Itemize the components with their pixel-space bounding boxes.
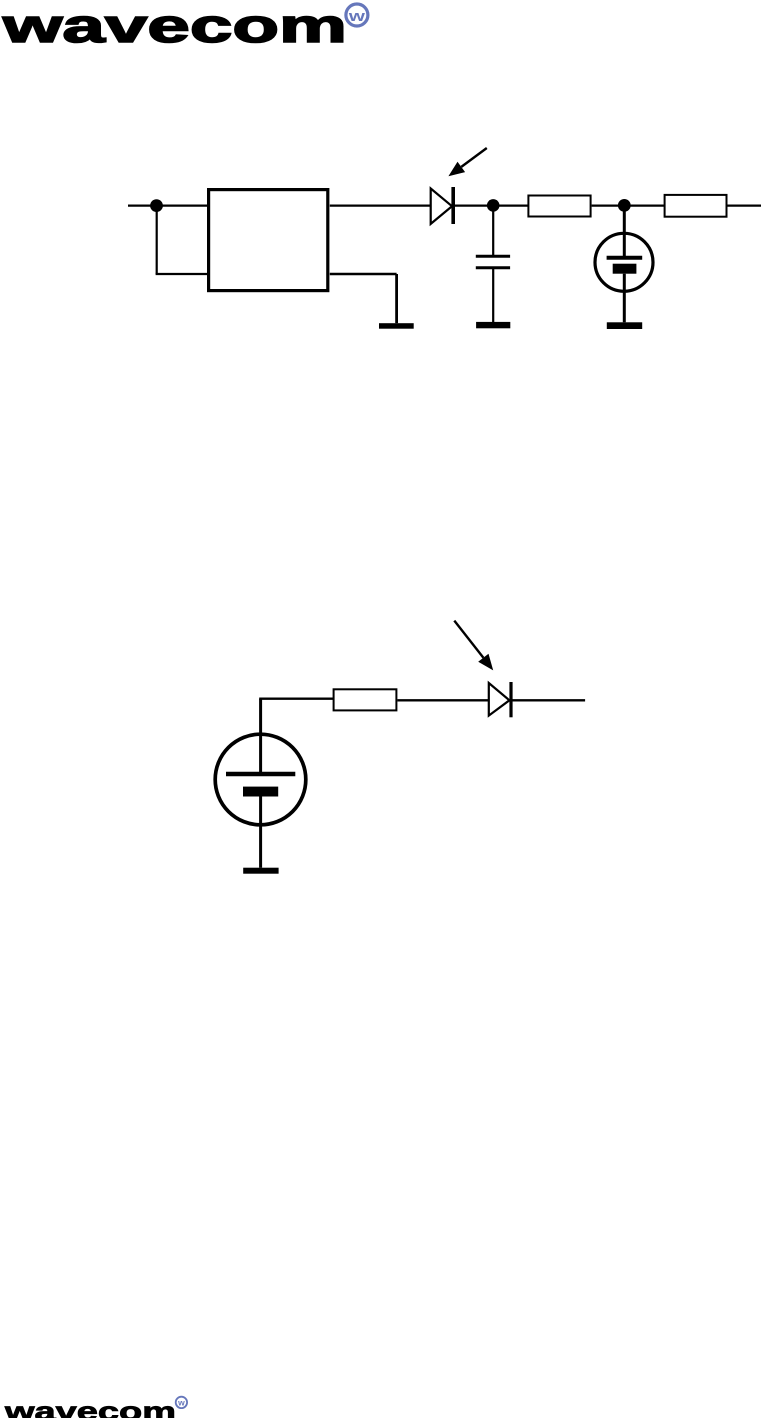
node capacitor junction bbox=[487, 199, 500, 212]
annotation arrow at D2 bbox=[454, 621, 493, 671]
wire R1 to node bbox=[592, 205, 625, 207]
logo footer badge bbox=[176, 1397, 187, 1408]
wire diode to node bbox=[455, 205, 493, 207]
battery BT2 circle bbox=[215, 734, 306, 825]
resistor R1 bbox=[528, 196, 590, 217]
resistor R3 bbox=[334, 689, 397, 710]
wire feedback vertical bbox=[156, 206, 158, 274]
wire regulator ground vertical bbox=[395, 274, 398, 323]
resistor R2 bbox=[665, 195, 727, 217]
wire regulator output bbox=[330, 205, 431, 207]
battery BT2 positive plate bbox=[226, 772, 295, 777]
wire battery BT2 top bbox=[259, 699, 262, 774]
diode D1 cathode bar bbox=[451, 187, 455, 224]
node input junction bbox=[150, 199, 163, 212]
ground capacitor branch bbox=[476, 322, 510, 328]
ground battery BT2 bbox=[243, 868, 278, 874]
wire output right bbox=[728, 205, 761, 207]
battery BT1 circle bbox=[595, 233, 653, 291]
wire node to battery BT1 bbox=[623, 206, 626, 258]
wire feedback horizontal bbox=[156, 273, 208, 275]
wire output D2 bbox=[513, 699, 586, 701]
wire battery to ground bbox=[623, 274, 626, 323]
ground battery branch bbox=[607, 322, 642, 329]
svg-text:wavecom: wavecom bbox=[4, 1396, 176, 1418]
wire node to R2 bbox=[624, 205, 664, 207]
wire node to R1 bbox=[493, 205, 528, 207]
diode D2 anode triangle bbox=[489, 683, 510, 716]
capacitor C1 top plate bbox=[476, 255, 510, 258]
wire R3 to diode D2 bbox=[397, 699, 489, 701]
battery BT1 negative plate bbox=[613, 264, 637, 274]
ground regulator branch bbox=[379, 323, 414, 329]
regulator block U1 bbox=[209, 190, 328, 291]
diode D2 cathode bar bbox=[509, 682, 512, 717]
svg-text:wavecom: wavecom bbox=[1, 0, 347, 52]
wire capacitor to ground bbox=[492, 268, 494, 322]
svg-text:w: w bbox=[347, 9, 365, 25]
wire input left bbox=[128, 205, 208, 207]
battery BT1 positive plate bbox=[607, 256, 643, 260]
logo header badge bbox=[346, 4, 368, 26]
wire node to capacitor C1 bbox=[492, 206, 494, 256]
diode D1 anode triangle bbox=[431, 189, 452, 224]
node battery junction bbox=[618, 199, 631, 212]
wire battery to R3 bbox=[259, 698, 333, 700]
battery BT2 negative plate bbox=[243, 787, 278, 797]
svg-text:w: w bbox=[177, 1398, 185, 1408]
wire regulator ground horizontal bbox=[330, 273, 397, 275]
capacitor C1 bottom plate bbox=[476, 266, 510, 269]
annotation arrow at D1 bbox=[448, 148, 486, 176]
wire battery BT2 bottom bbox=[259, 797, 262, 868]
